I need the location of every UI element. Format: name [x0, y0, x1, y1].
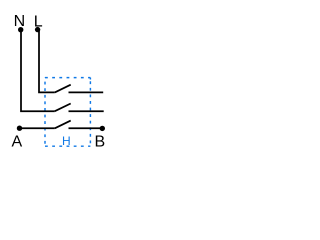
svg-text:B: B: [95, 133, 106, 150]
svg-text:L: L: [34, 13, 43, 30]
svg-text:A: A: [12, 133, 23, 150]
svg-text:H: H: [62, 134, 71, 148]
svg-text:N: N: [14, 13, 26, 30]
